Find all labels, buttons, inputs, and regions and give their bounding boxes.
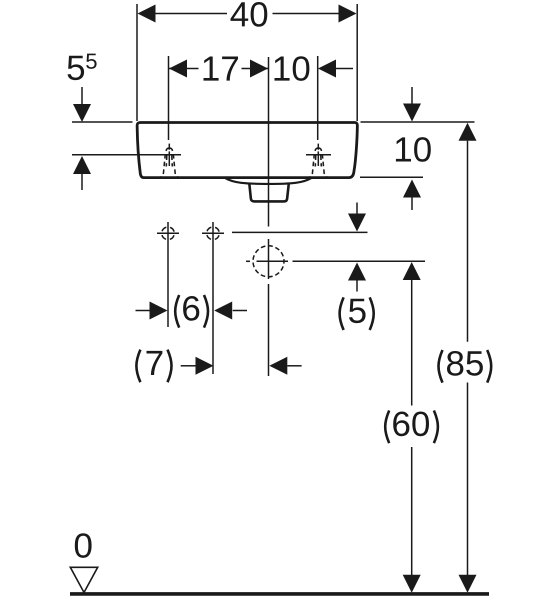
dimension (7) (136, 350, 301, 383)
basin top reference line right (361, 121, 475, 123)
dimension 5.5 down arrow (73, 87, 91, 122)
floor line (70, 592, 489, 596)
right tap hole (dashed) (306, 144, 331, 178)
basin bottom reference line right (360, 176, 423, 178)
extension line left (40) (136, 4, 138, 121)
towel hole crosshair left (157, 222, 179, 327)
basin outline (137, 123, 357, 178)
towel hole crosshair right (202, 222, 224, 374)
dimension 10 (top) (275, 56, 354, 81)
drain outlet (249, 184, 288, 202)
dimension 17 (169, 57, 268, 81)
extension line 17-left / left tap (168, 56, 170, 140)
waste recess lens (226, 178, 312, 184)
dimension 10 (right side) (396, 87, 431, 210)
overflow reference line (293, 260, 426, 262)
dimension 40 (138, 2, 357, 27)
dimension 5.5 up arrow (73, 156, 91, 190)
dimension (5) (340, 203, 374, 331)
dimension (6) (136, 295, 248, 328)
extension line centre (268, 57, 270, 376)
left tap hole (dashed) (160, 144, 179, 178)
dimension (85) vertical (439, 123, 492, 593)
datum triangle (70, 567, 97, 592)
tap deck reference line (72, 154, 181, 156)
datum label 0 (75, 533, 92, 558)
towel hole reference line (232, 231, 368, 233)
dimension 5.5 label (68, 54, 97, 81)
extension line right (40) (356, 4, 358, 121)
basin top reference line left (72, 121, 133, 123)
overflow hole dashed circle (246, 246, 288, 277)
extension line 10-right / right tap (317, 56, 319, 140)
dimension (60) vertical (385, 262, 438, 593)
